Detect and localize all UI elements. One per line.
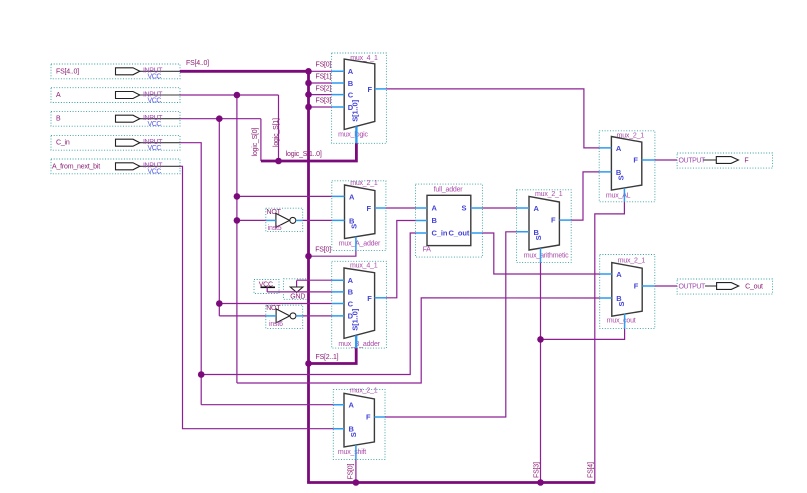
svg-text:mux_B_adder: mux_B_adder [338, 341, 380, 348]
svg-text:F: F [367, 204, 372, 213]
svg-text:logic_S[0]: logic_S[0] [252, 128, 259, 157]
svg-text:C_out: C_out [745, 284, 763, 291]
node FS[0] mux_A_adder S junction [305, 253, 312, 260]
node FS[3] junction [305, 104, 312, 111]
node A row junction [234, 92, 241, 99]
svg-text:OUTPUT: OUTPUT [679, 158, 707, 165]
wire net C_in branch to full_adder C_in [201, 233, 415, 375]
svg-text:F: F [551, 215, 556, 224]
wire bus FS[4..0] bottom horizontal [307, 481, 595, 484]
svg-text:C: C [348, 90, 354, 99]
wire net B from input pin [180, 118, 261, 120]
wire full_adder S to mux_arithmetic A [482, 207, 516, 209]
wire mux_AL F to output pin F [655, 159, 677, 161]
mux_2_1 mux_arithmetic [517, 190, 572, 263]
wire FS[0] riser to mux_shift S [348, 459, 356, 482]
node FS[3] bottom junction [537, 479, 544, 486]
svg-text:mux_2_1: mux_2_1 [535, 191, 563, 198]
wire net B to NOT inst6 input [219, 315, 265, 317]
wire mux_A_adder F to full_adder A [386, 207, 416, 209]
svg-text:FA: FA [423, 246, 432, 253]
svg-text:inst6: inst6 [269, 321, 283, 328]
ground GND symbol [284, 279, 310, 301]
svg-text:S: S [617, 302, 626, 307]
wire NOT inst5 output to mux_A_adder B [303, 219, 332, 221]
svg-text:mux_2_1: mux_2_1 [350, 180, 378, 187]
svg-text:S: S [534, 235, 543, 240]
svg-text:FS[1]: FS[1] [316, 73, 332, 80]
svg-text:A: A [534, 204, 540, 213]
svg-text:mux_AL: mux_AL [606, 193, 631, 200]
wire mux_arithmetic F to mux_AL B [571, 172, 599, 220]
wire logic_S[1] vertical [273, 95, 280, 161]
wire mux_logic F to mux_AL A [386, 89, 599, 148]
svg-text:A: A [348, 67, 354, 76]
svg-text:mux_logic: mux_logic [338, 132, 368, 139]
wire mux_shift F to mux_arithmetic B [385, 232, 517, 417]
output pin C_out [677, 279, 772, 294]
svg-text:B: B [348, 288, 354, 297]
wire FS[3] branch to mux_cout S [541, 329, 625, 340]
VCC power symbol [254, 280, 279, 294]
wire FS[1] breakout to mux_logic B [309, 73, 332, 83]
svg-text:FS[4]: FS[4] [588, 462, 595, 478]
svg-text:A: A [432, 204, 438, 213]
node FS[0] bottom junction [353, 479, 360, 486]
input pin C_in [51, 135, 180, 152]
node A to inst5 junction [234, 217, 241, 224]
svg-text:mux_shift: mux_shift [338, 449, 366, 456]
wire net A to mux_A_adder A [237, 195, 332, 197]
mux_2_1 mux_shift [333, 388, 385, 460]
svg-text:VCC: VCC [148, 169, 162, 176]
node FS bus corner / FS[0] junction [305, 68, 312, 75]
svg-text:FS[2..1]: FS[2..1] [316, 354, 339, 361]
input pin A [51, 88, 180, 105]
node B row junction [216, 115, 223, 122]
svg-text:VCC: VCC [148, 97, 162, 104]
mux_2_1 mux_cout [600, 255, 655, 329]
wire FS[2] breakout to mux_logic C [309, 85, 332, 94]
svg-text:VCC: VCC [148, 145, 162, 152]
svg-text:mux_cout: mux_cout [607, 318, 636, 325]
NOT gate inst5 [266, 208, 303, 232]
wire net C_in from input pin [180, 143, 201, 405]
svg-text:GND: GND [290, 293, 305, 300]
input pin FS[4..0] [51, 64, 180, 81]
svg-text:C: C [348, 299, 354, 308]
svg-text:FS[0]: FS[0] [348, 464, 355, 480]
svg-text:mux_4_1: mux_4_1 [350, 262, 378, 269]
wire bus FS[2..1] breakout to mux_B_adder S [309, 348, 357, 363]
svg-text:S: S [617, 175, 626, 180]
input pin B [51, 111, 180, 128]
node FS[1] junction [305, 80, 312, 87]
input pin A_from_next_bit [51, 159, 180, 176]
wire NOT inst6 output to mux_B_adder D [303, 315, 332, 317]
mux_2_1 mux_AL [599, 131, 655, 202]
wire net A branch vertical [236, 95, 238, 383]
svg-text:FS[3]: FS[3] [534, 462, 541, 478]
svg-text:full_adder: full_adder [434, 186, 464, 193]
svg-text:C_in: C_in [432, 229, 448, 238]
svg-text:FS[4..0]: FS[4..0] [56, 68, 79, 75]
wire VCC to mux_B_adder B [267, 291, 332, 293]
svg-text:FS[3]: FS[3] [316, 97, 332, 104]
svg-text:A_from_next_bit: A_from_next_bit [52, 164, 100, 171]
svg-text:F: F [634, 282, 639, 291]
wire FS[3] breakout to mux_logic D [309, 97, 332, 107]
svg-text:F: F [633, 156, 638, 165]
node A to mux_A_adder junction [234, 193, 241, 200]
svg-text:S[1..0]: S[1..0] [350, 308, 359, 330]
wire net A from input pin [180, 94, 279, 96]
svg-text:OUTPUT: OUTPUT [679, 284, 707, 291]
node C_in branch junction [198, 371, 205, 378]
wire FS[3] riser to mux_arithmetic S [534, 263, 541, 483]
wire net C_in to mux_shift A [201, 404, 333, 406]
svg-text:VCC: VCC [148, 74, 162, 81]
svg-text:FS[4..0]: FS[4..0] [186, 60, 209, 67]
svg-text:logic_S[1..0]: logic_S[1..0] [286, 151, 322, 158]
svg-text:C_in: C_in [56, 140, 70, 147]
svg-text:mux_2_1: mux_2_1 [618, 257, 646, 264]
mux_4_1 mux_logic [332, 53, 387, 143]
wire net B to mux_B_adder C [219, 303, 331, 305]
svg-text:A: A [348, 276, 354, 285]
svg-text:mux_arithmetic: mux_arithmetic [524, 252, 569, 259]
mux_4_1 mux_B_adder [332, 261, 387, 348]
svg-text:FS[2]: FS[2] [316, 85, 332, 92]
svg-text:A: A [56, 92, 61, 99]
node FS[3] to mux_cout S junction [537, 336, 544, 343]
wire net A_from_next_bit to mux_shift B [180, 166, 333, 428]
svg-text:C_out: C_out [449, 229, 470, 238]
svg-text:logic_S[1]: logic_S[1] [273, 118, 280, 147]
wire FS[0] breakout to mux_logic A [309, 62, 332, 72]
svg-text:F: F [366, 412, 371, 421]
wire GND to mux_B_adder A [297, 279, 332, 281]
wire net A to NOT inst5 input [237, 219, 266, 221]
svg-text:F: F [368, 85, 373, 94]
svg-text:mux_A_adder: mux_A_adder [339, 240, 381, 247]
svg-text:B: B [432, 216, 438, 225]
svg-text:F: F [367, 294, 372, 303]
NOT gate inst6 [266, 305, 303, 328]
output pin F [677, 153, 772, 168]
svg-text:A: A [349, 401, 355, 410]
wire mux_B_adder F to full_adder B [386, 221, 415, 298]
svg-text:F: F [744, 158, 748, 165]
wire bus logic_S[1..0] [261, 143, 357, 161]
wire net B branch vertical [218, 119, 220, 316]
svg-text:FS[0]: FS[0] [315, 246, 331, 253]
svg-text:A: A [349, 192, 355, 201]
wire net A to mux_cout B [237, 298, 600, 383]
wire full_adder C_out to mux_cout A [482, 233, 599, 274]
wire bus FS[4..0] horizontal from input pin [180, 60, 309, 71]
wire FS[4] riser to mux_AL S [588, 202, 625, 483]
svg-text:S: S [349, 432, 358, 437]
wire mux_cout F to output pin C_out [655, 285, 677, 287]
svg-text:VCC: VCC [148, 121, 162, 128]
svg-text:A: A [616, 144, 622, 153]
svg-text:inst5: inst5 [268, 225, 282, 232]
svg-text:S: S [350, 224, 359, 229]
wire logic_S[0] vertical [252, 119, 261, 161]
full_adder FA [416, 184, 483, 257]
wire bus FS[4..0] vertical trunk [307, 70, 310, 483]
svg-text:B: B [348, 79, 354, 88]
svg-text:mux_2_1: mux_2_1 [350, 388, 378, 395]
node logic_S[1] junction [275, 158, 282, 165]
svg-text:A: A [616, 270, 622, 279]
svg-text:S: S [462, 204, 467, 213]
svg-text:FS[0]: FS[0] [316, 62, 332, 69]
node FS[2..1] junction [305, 360, 312, 367]
svg-text:B: B [56, 116, 61, 123]
mux_2_1 mux_A_adder [332, 180, 386, 251]
node FS[2] junction [305, 91, 312, 98]
svg-text:S[1..0]: S[1..0] [351, 99, 360, 121]
node B to mux_B_adder C junction [216, 300, 223, 307]
wire FS[0] breakout to mux_A_adder S [309, 246, 356, 256]
